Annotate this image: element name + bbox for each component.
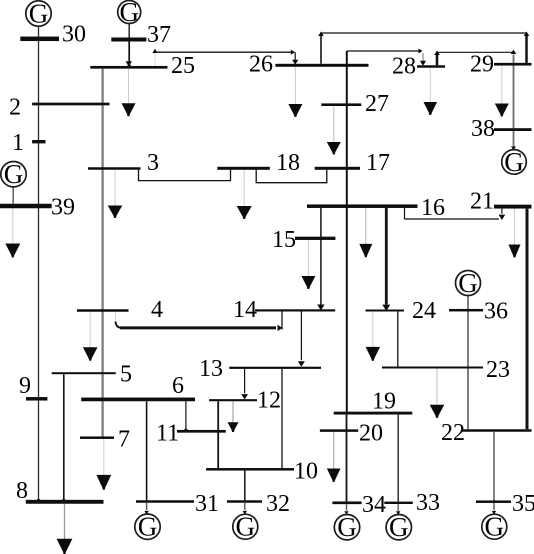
wire stub below bus 21	[501, 209, 503, 214]
wire thick stub above bus 28	[436, 54, 439, 66]
bus 24	[366, 310, 405, 312]
junction 6-11 at bus 11	[184, 429, 187, 432]
load bus 28	[424, 68, 438, 115]
svg-text:G: G	[458, 268, 478, 298]
bus 27	[321, 103, 361, 106]
svg-text:26: 26	[249, 52, 273, 78]
svg-text:25: 25	[171, 53, 195, 79]
arrowhead 25-26 right	[291, 50, 295, 55]
bus 21	[494, 205, 532, 209]
arrowhead 16-24 onto bus 24	[382, 305, 390, 311]
svg-text:10: 10	[294, 459, 318, 485]
wire 10-32	[244, 471, 246, 501]
arrowhead 26-28 right	[419, 49, 423, 54]
svg-text:32: 32	[266, 491, 290, 517]
bus 17	[315, 167, 360, 170]
svg-text:18: 18	[276, 150, 300, 176]
bus 34	[332, 501, 361, 504]
wire 30-2-1-39-9-8 trunk	[38, 26, 40, 500]
load bus 29	[495, 66, 509, 117]
junction G37 line at bus 25	[127, 64, 131, 68]
wire G37 to bus 37	[128, 23, 130, 37]
wire 3-18 underpass	[139, 170, 231, 181]
svg-text:G: G	[119, 0, 139, 27]
svg-text:5: 5	[120, 362, 132, 388]
load bus 4	[83, 312, 98, 361]
generator G36	[456, 268, 481, 298]
wire 16-15-14 vertical	[320, 208, 322, 305]
arrowhead 28-29 left up	[434, 51, 440, 56]
svg-text:G: G	[138, 512, 158, 542]
load bus 24	[366, 312, 380, 361]
bus 25	[90, 66, 167, 69]
bus 10	[206, 468, 294, 471]
arrowhead onto G34	[344, 511, 348, 515]
wire gray drop to bus 28	[422, 53, 424, 61]
wire 21-22 thick	[526, 209, 529, 430]
svg-text:G: G	[504, 147, 524, 177]
arrowhead onto G35	[492, 511, 496, 515]
svg-text:7: 7	[118, 427, 130, 453]
generator G35	[482, 512, 507, 542]
wire 23-24	[397, 312, 399, 367]
bus 12	[209, 399, 257, 401]
svg-text:36: 36	[484, 299, 508, 325]
arrowhead 16-21 down	[499, 215, 506, 220]
arrowhead 26-29 right up	[524, 32, 530, 37]
wire bus 34 to G34	[346, 504, 348, 510]
svg-text:G: G	[4, 159, 24, 189]
bus 23	[382, 367, 483, 369]
svg-text:15: 15	[272, 227, 296, 253]
generator G31	[135, 512, 160, 542]
svg-text:33: 33	[416, 490, 440, 516]
wire 26-28 horizontal	[347, 50, 420, 52]
wire 25-26 horizontal	[155, 51, 294, 53]
generator G32	[233, 512, 258, 542]
wire 4-14 rounded corner	[116, 322, 123, 328]
load bus 21	[509, 209, 521, 258]
arrowhead G37 onto bus 25	[126, 61, 132, 66]
bus 38	[494, 128, 532, 131]
svg-text:9: 9	[19, 373, 31, 399]
wire 14-13	[300, 312, 302, 361]
bus 11	[177, 430, 226, 433]
load bus 7	[96, 439, 111, 490]
svg-text:27: 27	[365, 91, 389, 117]
wire 22-35	[493, 432, 495, 501]
generator G30	[26, 0, 51, 28]
svg-text:39: 39	[51, 195, 75, 221]
bus 32	[227, 500, 262, 503]
wire 16-21 horizontal	[405, 218, 500, 220]
bus 5	[52, 372, 116, 374]
generator G37	[118, 0, 141, 27]
load bus 3	[108, 170, 123, 218]
arrowhead 26-29 left up	[318, 32, 324, 37]
bus 20	[320, 429, 358, 432]
svg-text:37: 37	[147, 22, 171, 48]
bus 1	[32, 140, 45, 143]
load bus 8	[57, 504, 73, 554]
svg-text:29: 29	[470, 52, 494, 78]
arrowhead 14-13 onto bus 13	[298, 361, 305, 367]
wire 16 drop	[404, 208, 406, 219]
load bus 15	[301, 240, 315, 289]
wire 6-31	[146, 401, 148, 500]
bus 26	[275, 64, 368, 67]
svg-text:G: G	[236, 512, 256, 542]
svg-text:11: 11	[156, 421, 179, 447]
svg-text:21: 21	[470, 189, 494, 215]
wire 18-17 underpass	[256, 170, 327, 183]
wire 13-10	[281, 369, 283, 468]
svg-text:13: 13	[199, 356, 223, 382]
arrowhead onto bus 28	[420, 61, 426, 66]
svg-text:G: G	[337, 512, 357, 542]
wire 19-33	[397, 415, 399, 502]
wire stub above bus 25	[154, 53, 156, 66]
svg-text:31: 31	[195, 491, 219, 517]
load bus 16	[359, 208, 372, 257]
arrowhead 4-14 right	[278, 325, 283, 331]
load bus 39	[5, 208, 20, 257]
svg-text:G: G	[389, 512, 409, 542]
generator G39	[1, 159, 26, 189]
generator G38	[502, 147, 527, 177]
svg-text:14: 14	[233, 297, 257, 323]
svg-text:23: 23	[486, 357, 510, 383]
wire stub below bus 14	[281, 312, 283, 330]
wire 4-14 stub below bus 4	[115, 312, 117, 323]
svg-text:19: 19	[372, 389, 396, 415]
wire bus 35 to G35	[493, 503, 495, 510]
svg-text:34: 34	[362, 492, 386, 518]
wire bus 33 to G33	[397, 504, 399, 511]
bus 19	[334, 412, 413, 415]
load bus 18	[237, 170, 252, 219]
wire 26 riser	[320, 34, 322, 64]
svg-text:28: 28	[392, 54, 416, 80]
arrowhead 15 chain onto bus 14	[317, 305, 324, 311]
junction trunk at bus 8	[37, 499, 41, 503]
svg-text:12: 12	[257, 388, 281, 414]
bus 9	[26, 397, 47, 401]
wire 28-29 horizontal	[437, 51, 512, 53]
bus 29	[494, 63, 532, 66]
wire bus 31 to G31	[146, 503, 148, 510]
arrowhead 25-26 left up	[152, 49, 157, 53]
bus 36	[449, 309, 483, 312]
arrowhead 13-12 onto bus 12	[241, 394, 248, 399]
bus 22	[462, 429, 532, 432]
svg-text:24: 24	[412, 298, 436, 324]
svg-text:16: 16	[421, 195, 445, 221]
load bus 12	[228, 401, 239, 432]
load bus 20	[327, 432, 341, 482]
svg-text:G: G	[29, 0, 49, 28]
generator G34	[334, 512, 359, 542]
wire 29-38 gray vertical	[513, 55, 515, 129]
bus 15	[295, 237, 335, 240]
bus 18	[217, 167, 269, 170]
bus 39	[0, 204, 52, 209]
bus 13	[229, 367, 321, 369]
bus 37	[111, 38, 146, 42]
wire 19-20-34	[346, 415, 348, 502]
bus 33	[384, 502, 413, 504]
wire 26-29 top horizontal	[321, 32, 527, 34]
wire 12-11-10	[217, 401, 219, 468]
bus 14	[255, 309, 335, 311]
svg-text:6: 6	[172, 373, 184, 399]
wire 4-14 thick horizontal	[120, 326, 276, 329]
wire drop onto bus 26	[294, 52, 296, 60]
arrowhead onto G32	[243, 511, 247, 515]
svg-text:8: 8	[16, 478, 28, 504]
svg-text:35: 35	[512, 491, 534, 517]
bus 2	[32, 103, 109, 106]
wire 26-27-17-16-19 trunk	[346, 51, 348, 412]
wire 16-24 thick	[385, 208, 388, 305]
wire G36-36-23-22 gray	[467, 296, 469, 430]
bus 35	[476, 500, 511, 503]
wire 5-8	[63, 374, 65, 500]
load bus 27	[327, 106, 341, 154]
bus 31	[136, 500, 194, 503]
svg-text:20: 20	[359, 421, 383, 447]
bus 28	[417, 65, 445, 68]
wire bus 37 to bus 25	[128, 42, 130, 62]
wire 13-12	[244, 369, 246, 393]
svg-text:G: G	[485, 512, 505, 542]
wire 25-2-3-4-5-6-7 trunk	[101, 69, 103, 437]
svg-text:2: 2	[9, 95, 21, 121]
wire 29 riser thick	[525, 34, 528, 63]
svg-text:30: 30	[62, 22, 86, 48]
bus 30	[20, 37, 59, 42]
arrowhead onto G38	[511, 147, 516, 151]
bus 3	[88, 167, 141, 170]
arrowhead onto G33	[396, 511, 400, 515]
wire bus 32 to G32	[244, 503, 246, 510]
wire G39 to bus 39	[12, 187, 14, 204]
bus 16	[307, 204, 418, 208]
svg-text:17: 17	[366, 150, 390, 176]
load bus 25	[122, 69, 136, 117]
junction 5-8 at bus 8	[62, 499, 66, 503]
bus 7	[80, 436, 114, 439]
arrowhead onto bus 26	[292, 60, 298, 65]
wire 6-11	[185, 401, 187, 430]
svg-text:22: 22	[441, 420, 465, 446]
arrowhead 28-29 right up	[511, 50, 517, 55]
wire bus 38 to G38	[513, 131, 515, 148]
bus 6	[81, 398, 195, 402]
load bus 23	[430, 369, 445, 418]
svg-text:4: 4	[151, 297, 163, 323]
svg-text:3: 3	[147, 150, 159, 176]
generator G33	[386, 512, 411, 542]
bus 8	[26, 500, 104, 504]
bus 4	[77, 309, 129, 312]
svg-text:38: 38	[471, 116, 495, 142]
svg-text:1: 1	[12, 130, 24, 156]
arrowhead onto G31	[144, 511, 148, 515]
load bus 26	[288, 67, 302, 117]
